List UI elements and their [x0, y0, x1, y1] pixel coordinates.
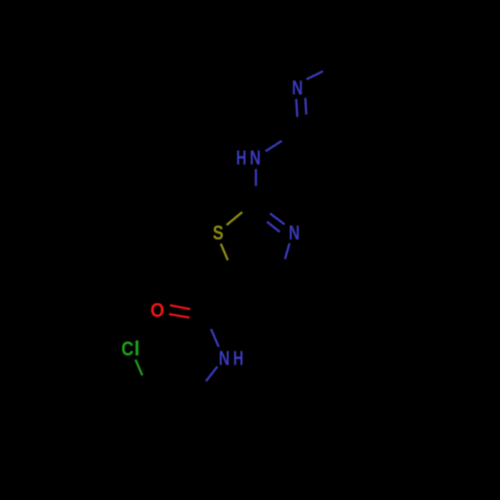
svg-text:O: O [150, 299, 164, 322]
bond S1-C5 half (olive) [221, 244, 228, 261]
bond N3-C4 half (blue) [285, 243, 290, 259]
bond HN-thiazoleC2 half (blue) [255, 169, 257, 186]
bond O=C lower line half (red) [169, 314, 190, 318]
bond O=C upper line half (red) [170, 305, 190, 309]
bond amideN-carbonylC half (blue) [211, 329, 219, 347]
atom N amide label NH [219, 347, 244, 370]
atom N amine label HN [236, 147, 261, 170]
bond Cl-phenylC2 half (green) [136, 360, 143, 376]
bond HN-pyridineC2 half (blue) [266, 141, 282, 152]
svg-text:S: S [213, 222, 224, 245]
svg-text:N: N [292, 77, 303, 100]
svg-text:H: H [236, 147, 246, 170]
svg-text:C: C [121, 338, 133, 361]
bond N1=C2 inner line half (blue) [305, 98, 306, 115]
svg-text:N: N [250, 147, 261, 170]
bond C2=N3 main line half (blue) [270, 213, 285, 224]
svg-text:l: l [134, 338, 140, 361]
bond S1-C2 half (olive) [227, 212, 243, 225]
atom Cl label [121, 338, 140, 361]
bond amideN-phenylC1 half (blue) [206, 367, 217, 382]
svg-text:N: N [289, 222, 300, 245]
svg-text:N: N [219, 347, 230, 370]
bond N1-C6 half (blue) [307, 71, 324, 79]
bond C2=N3 inner line half (blue) [267, 222, 280, 232]
bond N1=C2 main line half (blue) [296, 99, 297, 117]
svg-text:H: H [233, 347, 243, 370]
